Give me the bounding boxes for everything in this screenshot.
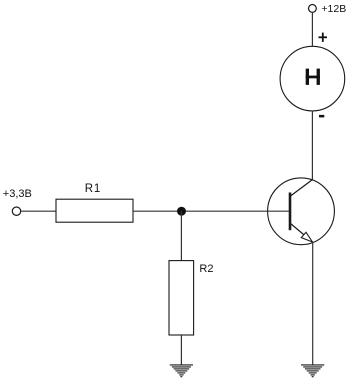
ground (R2) [170,365,193,377]
svg-text:+3,3В: +3,3В [3,188,32,200]
wire emitter to ground [312,242,314,365]
label H [306,69,320,85]
node A (junction dot) [177,207,186,216]
base bar [289,193,292,231]
svg-text:+12В: +12В [321,3,346,15]
transistor Q1 [268,178,335,245]
svg-text:R2: R2 [199,263,213,275]
wire R1 to base [133,210,289,212]
motor H [280,46,345,111]
terminal +12B [309,4,317,12]
ground (emitter) [301,365,324,377]
emitter lead [291,224,313,243]
wire motor to collector [311,111,313,180]
resistor R1 [56,199,133,222]
label - (motor polarity) [319,115,324,118]
wire R2 to ground [180,335,182,365]
collector lead [291,180,313,196]
wire node to R2 [180,211,182,260]
emitter arrowhead [301,232,312,242]
svg-text:R1: R1 [85,183,101,195]
wire terminal +3,3B to R1 [21,210,56,212]
resistor R2 [169,261,194,335]
label + (motor polarity) [319,33,328,42]
transistor body circle [268,178,335,245]
wire terminal +12B to motor [311,12,313,46]
terminal +3,3B [12,207,20,215]
